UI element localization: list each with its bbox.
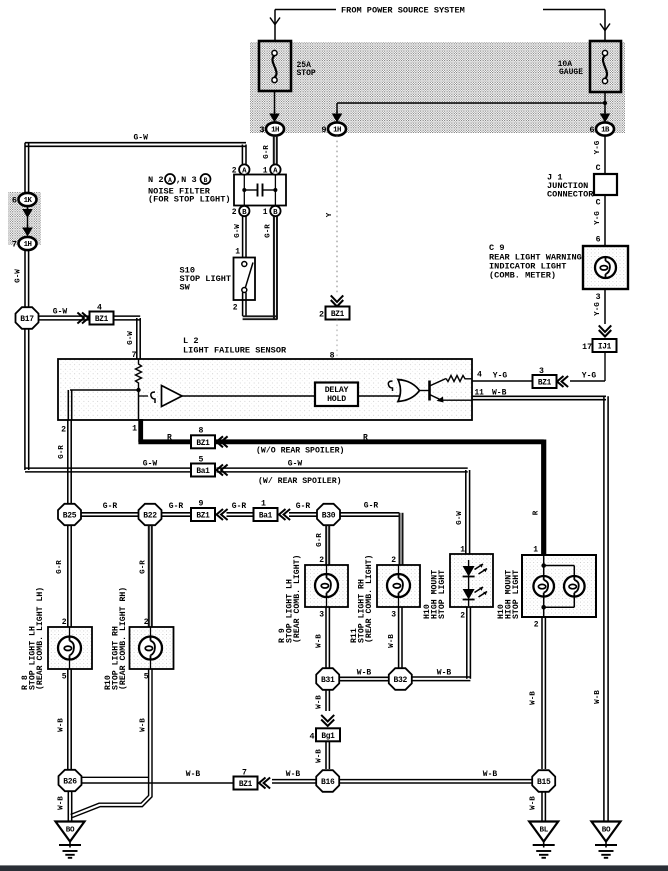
switch S10 contacts: [242, 262, 247, 267]
wire switch pin2 loop to 1B wire: [242, 293, 244, 317]
wire W-B B31 down: [325, 690, 327, 711]
wire G-R fuse to noise filter pin 1A: [273, 136, 275, 165]
wire W-B BZ1 to B16: [272, 779, 316, 781]
svg-text:W-B: W-B: [388, 634, 396, 648]
connector 7(1H): [12, 237, 37, 250]
svg-text:Ba1: Ba1: [259, 513, 273, 521]
svg-text:G-R: G-R: [232, 502, 247, 511]
svg-text:G-W: G-W: [234, 224, 242, 238]
svg-text:G-W: G-W: [288, 460, 303, 469]
fuse 25A STOP: [259, 41, 291, 91]
inter-connector arrows: [27, 206, 29, 231]
svg-text:HOLD: HOLD: [327, 395, 346, 404]
arrow from 9 BZ1: [217, 509, 224, 520]
svg-text:CONNECTOR: CONNECTOR: [547, 190, 594, 200]
wire W-B B26 to BZ1 7: [82, 776, 148, 778]
label S10 STOP LIGHT SW: [180, 266, 232, 293]
bulb R9: [315, 574, 338, 597]
wire BZ1 4 to sensor pin 7: [114, 315, 141, 317]
junction 17[IJ1]: [593, 339, 617, 352]
svg-text:1: 1: [235, 248, 240, 257]
svg-text:BZ1: BZ1: [538, 380, 552, 388]
svg-text:2: 2: [61, 426, 66, 435]
svg-text:Y-G: Y-G: [594, 211, 602, 225]
svg-text:W-B: W-B: [530, 691, 538, 705]
arrow from 8 BZ1: [217, 436, 224, 447]
svg-text:(REAR COMB. LIGHT): (REAR COMB. LIGHT): [292, 555, 302, 643]
svg-text:Y-G: Y-G: [493, 372, 508, 381]
wire B17 to BZ1 4: [38, 315, 90, 317]
sensor L2 title: [183, 336, 287, 356]
svg-text:2: 2: [232, 167, 237, 176]
splice B22: [139, 504, 162, 525]
svg-text:G-R: G-R: [56, 560, 64, 574]
svg-text:G-R: G-R: [265, 224, 273, 238]
svg-text:3: 3: [319, 611, 324, 620]
svg-text:DELAY: DELAY: [325, 386, 349, 395]
svg-text:1H: 1H: [24, 241, 32, 249]
wire G-R sensor pin 2 to B25: [67, 420, 69, 504]
svg-text:W-B: W-B: [437, 669, 452, 678]
splice B17: [16, 307, 39, 329]
wire G-R noise filter 1B down: [273, 217, 275, 320]
svg-text:(REAR COMB. LIGHT LH): (REAR COMB. LIGHT LH): [35, 587, 45, 690]
svg-text:R: R: [533, 510, 541, 515]
svg-text:GAUGE: GAUGE: [559, 68, 583, 77]
svg-text:1: 1: [132, 425, 137, 434]
svg-text:G-R: G-R: [140, 560, 148, 574]
svg-text:C 9: C 9: [489, 243, 504, 253]
arrow into 3 BZ1: [557, 376, 564, 387]
svg-text:2: 2: [232, 208, 237, 217]
wire Y-G from IJ1 down to sensor pin 4 row: [604, 352, 606, 382]
transistor Q: [428, 381, 431, 401]
svg-text:G-R: G-R: [58, 445, 66, 459]
svg-text:Y: Y: [326, 212, 334, 217]
wire W-B R9 to B31: [325, 607, 327, 669]
wire W-B R10 to ground stem: [71, 669, 149, 815]
svg-text:G-W: G-W: [456, 511, 464, 525]
capacitor in noise filter: [257, 184, 259, 197]
wire to sensor pin 8: [336, 320, 338, 383]
label H10 HIGH MOUNT STOP LIGHT (bulb): [497, 570, 521, 619]
svg-text:C: C: [596, 199, 601, 208]
ground BO left: [56, 822, 85, 842]
svg-text:G-R: G-R: [364, 502, 379, 511]
junction 4[BZ1]: [90, 304, 114, 325]
wire G-R B25 to R8: [67, 526, 69, 628]
svg-text:B: B: [204, 177, 208, 184]
LED symbols: [463, 560, 487, 606]
stop light R8 bulb box: [48, 627, 92, 669]
junction 7[BZ1]: [234, 769, 258, 790]
svg-text:G-R: G-R: [263, 145, 271, 159]
svg-text:1: 1: [263, 208, 268, 217]
svg-text:G-W: G-W: [127, 331, 135, 345]
stop light R11 bulb box: [377, 565, 420, 607]
label R10 STOP LIGHT RH: [104, 587, 128, 690]
wire W-B B16 to B15: [340, 779, 532, 781]
wire G-R B30 to R9: [325, 526, 327, 566]
OR gate: [398, 380, 420, 402]
connector 3(1H): [259, 122, 284, 135]
svg-text:3: 3: [391, 611, 396, 620]
svg-text:STOP LIGHT: STOP LIGHT: [438, 570, 447, 619]
svg-text:2: 2: [319, 310, 324, 320]
svg-text:BO: BO: [66, 827, 75, 835]
svg-text:W-B: W-B: [483, 770, 498, 779]
svg-text:(REAR COMB. LIGHT): (REAR COMB. LIGHT): [364, 555, 374, 643]
svg-text:BZ1: BZ1: [95, 316, 109, 324]
svg-text:W-B: W-B: [58, 796, 66, 810]
wire G-R B25 to B22: [82, 512, 140, 514]
junction 4[Bg1]: [316, 728, 340, 741]
connector 6(1K): [12, 193, 37, 206]
svg-text:1H: 1H: [333, 127, 341, 135]
high mount stop light bulb box: [522, 555, 596, 617]
svg-text:BZ1: BZ1: [196, 513, 210, 521]
arrow from 7 BZ1: [259, 778, 266, 789]
comparator output wire: [182, 395, 315, 397]
label R9 STOP LIGHT LH: [278, 555, 302, 643]
svg-text:B22: B22: [143, 511, 157, 520]
svg-text:LIGHT FAILURE SENSOR: LIGHT FAILURE SENSOR: [183, 346, 287, 356]
svg-text:B16: B16: [321, 778, 335, 787]
svg-text:Y-G: Y-G: [594, 140, 602, 154]
bulb R11: [387, 574, 410, 597]
arrow from 1 Ba1: [279, 509, 286, 520]
svg-text:4: 4: [97, 304, 102, 313]
wire B15 to ground: [541, 792, 543, 822]
svg-text:(W/ REAR SPOILER): (W/ REAR SPOILER): [258, 476, 342, 486]
svg-text:SW: SW: [180, 283, 191, 293]
wire delay to OR gate: [358, 395, 399, 397]
label R8 STOP LIGHT LH: [21, 587, 45, 690]
svg-text:G-W: G-W: [15, 269, 23, 283]
svg-text:2: 2: [534, 621, 539, 630]
wire fuse STOP to connector 3(1H): [274, 91, 276, 113]
connector 9(1H): [321, 122, 346, 135]
svg-text:W-B: W-B: [316, 634, 324, 648]
wire Y-G to sensor pin 4: [472, 380, 533, 382]
junction 1[Ba1]: [254, 508, 278, 521]
label R11 STOP LIGHT RH: [350, 555, 374, 643]
svg-text:2: 2: [391, 556, 396, 565]
svg-text:W-B: W-B: [594, 690, 602, 704]
ground BL: [529, 822, 558, 842]
OR gate input hook: [388, 381, 392, 391]
svg-text:W-B: W-B: [357, 669, 372, 678]
arrow from 5 Ba1: [217, 465, 224, 476]
splice B25: [58, 504, 81, 525]
sensor internal wires: [138, 388, 140, 419]
svg-text:B26: B26: [63, 777, 77, 786]
connector 6(1B): [589, 122, 614, 135]
sensor output resistor: [446, 376, 472, 382]
twin bulbs internal wiring: [543, 554, 545, 577]
svg-text:4: 4: [309, 731, 314, 741]
junction 5[Ba1]: [191, 464, 215, 477]
wire W-B B31 to B32: [340, 676, 389, 678]
bulb R10: [139, 637, 162, 660]
svg-text:1K: 1K: [24, 197, 33, 205]
wire W-B R8 to B26: [67, 669, 69, 769]
svg-text:B17: B17: [20, 315, 34, 324]
wire from power source right: [543, 9, 605, 11]
sensor internal resistor: [136, 359, 142, 388]
svg-text:2: 2: [319, 556, 324, 565]
svg-text:G-W: G-W: [53, 308, 68, 317]
wire from power source left: [275, 9, 336, 11]
label C9 REAR LIGHT WARNING INDICATOR LIGHT: [489, 243, 582, 281]
wire G-W down to B17: [24, 250, 26, 308]
svg-text:W-B: W-B: [530, 796, 538, 810]
splice B16: [316, 770, 339, 792]
svg-text:8: 8: [330, 352, 335, 361]
svg-text:2: 2: [233, 304, 238, 313]
svg-text:BL: BL: [539, 827, 548, 835]
svg-text:FROM POWER SOURCE SYSTEM: FROM POWER SOURCE SYSTEM: [341, 6, 465, 16]
svg-text:B25: B25: [63, 511, 77, 520]
svg-text:3: 3: [596, 293, 601, 302]
svg-text:17: 17: [582, 343, 592, 352]
arrow into 4 BZ1: [82, 313, 89, 324]
delay hold box: [315, 383, 358, 407]
svg-text:A: A: [242, 167, 247, 175]
svg-text:7: 7: [132, 351, 137, 360]
C9 comb meter box: [583, 246, 628, 289]
wire W-B R11 to B32: [398, 607, 400, 669]
noise filter internal wires: [243, 175, 245, 206]
svg-text:G-W: G-W: [134, 134, 149, 143]
svg-text:B: B: [242, 209, 247, 217]
svg-text:,N 3: ,N 3: [176, 175, 197, 185]
svg-text:(REAR COMB. LIGHT RH): (REAR COMB. LIGHT RH): [118, 587, 128, 690]
svg-text:L 2: L 2: [183, 336, 198, 346]
noise filter pin 1B: [263, 206, 281, 217]
bulb H10 right: [564, 576, 585, 597]
splice B31: [316, 668, 339, 690]
junction 8[BZ1]: [191, 435, 215, 448]
svg-text:6: 6: [596, 236, 601, 245]
svg-text:G-R: G-R: [169, 502, 184, 511]
bottom frame line: [0, 865, 668, 871]
wire W-B Bg1 to B16: [325, 741, 327, 769]
comparator input hook: [151, 392, 155, 403]
wire 6(1B) to J1: [604, 136, 606, 174]
svg-text:(W/O REAR SPOILER): (W/O REAR SPOILER): [256, 446, 344, 456]
thick R wire W/O rear spoiler: [138, 419, 143, 442]
svg-text:4: 4: [477, 371, 482, 380]
fuse 10A GAUGE: [590, 41, 621, 92]
svg-text:STOP LIGHT: STOP LIGHT: [512, 570, 521, 619]
wire G-W top run to left side: [25, 142, 246, 144]
bulb R8: [58, 637, 81, 660]
svg-text:B31: B31: [321, 676, 335, 685]
svg-text:W-B: W-B: [316, 749, 324, 763]
wire W-B LED H10 to B32: [466, 607, 468, 679]
svg-text:G-R: G-R: [296, 502, 311, 511]
wire W-B bulb H10 to B15: [541, 617, 543, 769]
svg-text:C: C: [596, 164, 601, 173]
dotted patch around connectors 6(1K)/7(1H): [8, 192, 41, 245]
svg-text:2: 2: [62, 618, 67, 627]
noise filter pin 2A: [232, 164, 250, 175]
junction 2[BZ1]: [326, 307, 350, 320]
svg-text:3: 3: [259, 125, 264, 135]
svg-text:1B: 1B: [601, 127, 610, 135]
svg-text:B15: B15: [537, 778, 551, 787]
junction connector J1 box: [594, 174, 617, 195]
svg-text:B32: B32: [394, 676, 408, 685]
wire G-R B22 to R10: [148, 526, 150, 628]
ground BO right: [592, 822, 621, 842]
noise filter pin 2B: [232, 206, 250, 217]
svg-text:3: 3: [539, 367, 544, 376]
junction dot at fuse GAUGE wire: [603, 101, 607, 105]
wire G-R B30 to R11 drop: [340, 512, 399, 514]
stop light R9 bulb box: [305, 565, 348, 607]
wire W-B sensor pin 11 to right ground: [472, 395, 606, 397]
svg-text:1: 1: [533, 546, 538, 555]
noise filter pin 1A: [263, 164, 281, 175]
svg-text:N 2: N 2: [148, 175, 163, 185]
wire B26 to ground: [67, 792, 69, 822]
wire branch to 9(1H): [337, 102, 605, 104]
wire G-W noise filter 2B to switch: [242, 217, 244, 258]
svg-text:(COMB. METER): (COMB. METER): [489, 271, 556, 281]
junction 3[BZ1] on Y-G: [533, 367, 557, 388]
svg-text:Y-G: Y-G: [582, 372, 597, 381]
svg-text:BZ1: BZ1: [239, 781, 253, 789]
wire Y dotted 9(1H) to junction BZ1: [336, 136, 338, 295]
svg-text:1H: 1H: [271, 127, 279, 135]
svg-text:5: 5: [62, 673, 67, 682]
splice B15: [532, 770, 555, 792]
svg-text:B: B: [273, 209, 278, 217]
svg-text:W-B: W-B: [186, 770, 201, 779]
svg-text:R: R: [363, 434, 368, 443]
svg-text:W-B: W-B: [492, 389, 507, 398]
wire J1 to C9: [604, 195, 606, 246]
wire G-W W/ rear spoiler: [24, 329, 26, 470]
svg-text:R: R: [167, 434, 172, 443]
svg-text:IJ1: IJ1: [598, 344, 612, 352]
svg-text:9: 9: [199, 500, 204, 509]
svg-text:A: A: [273, 167, 278, 175]
svg-text:G-R: G-R: [103, 502, 118, 511]
arrow into 4 Bg1: [321, 720, 334, 727]
svg-text:BO: BO: [602, 827, 611, 835]
svg-text:W-B: W-B: [316, 695, 324, 709]
svg-text:1: 1: [263, 167, 268, 176]
arrow into IJ1: [599, 330, 612, 337]
svg-text:W-B: W-B: [140, 718, 148, 732]
svg-text:W-B: W-B: [58, 718, 66, 732]
svg-text:B30: B30: [322, 511, 336, 520]
splice B26: [59, 770, 82, 791]
svg-text:6: 6: [12, 196, 17, 206]
svg-text:G-W: G-W: [143, 460, 158, 469]
comparator triangle: [162, 386, 183, 407]
svg-text:2: 2: [460, 612, 465, 621]
sensor emitter wire to pin 11: [442, 399, 473, 401]
light failure sensor box: [58, 359, 472, 420]
switch S10 box: [234, 258, 256, 301]
stop light R10 bulb box: [130, 627, 174, 669]
svg-text:8: 8: [199, 427, 204, 436]
svg-text:Y-G: Y-G: [594, 302, 602, 316]
svg-text:Ba1: Ba1: [196, 468, 210, 476]
wire C9 to IJ1: [604, 289, 606, 324]
svg-text:9: 9: [321, 125, 326, 135]
svg-text:STOP: STOP: [297, 69, 316, 78]
svg-text:BZ1: BZ1: [331, 311, 345, 319]
noise filter box: [234, 175, 286, 206]
dotted power-source band: [250, 42, 625, 133]
wire OR to transistor: [420, 390, 430, 392]
junction 9[BZ1]: [191, 508, 215, 521]
svg-text:1: 1: [261, 500, 266, 509]
svg-text:11: 11: [475, 390, 485, 398]
wire fuse GAUGE down: [604, 92, 606, 113]
splice B30: [317, 504, 340, 525]
svg-text:A: A: [168, 177, 172, 184]
svg-text:7: 7: [242, 769, 247, 778]
high mount stop light LED box: [450, 554, 493, 607]
svg-text:2: 2: [144, 618, 149, 627]
svg-text:G-R: G-R: [316, 533, 324, 547]
svg-text:6: 6: [589, 125, 594, 135]
svg-text:7: 7: [12, 240, 17, 250]
svg-text:W-B: W-B: [286, 770, 301, 779]
noise filter N2/N3 labels: [148, 174, 231, 205]
svg-text:Bg1: Bg1: [321, 733, 335, 741]
svg-text:BZ1: BZ1: [196, 440, 210, 448]
C9 indicator bulb: [595, 257, 616, 278]
wire G-R B22 to BZL1 9: [162, 512, 191, 514]
label H10 HIGH MOUNT STOP LIGHT (LED): [423, 570, 447, 619]
label J1 JUNCTION CONNECTOR: [547, 173, 594, 200]
arrow into junction 2 BZ1: [331, 300, 344, 307]
splice B32: [389, 668, 412, 690]
wire G-R Ba1 to B30: [227, 512, 255, 514]
svg-text:(FOR STOP LIGHT): (FOR STOP LIGHT): [148, 195, 231, 205]
bulb H10 left: [533, 576, 554, 597]
sensor internal junction dot: [136, 388, 140, 392]
